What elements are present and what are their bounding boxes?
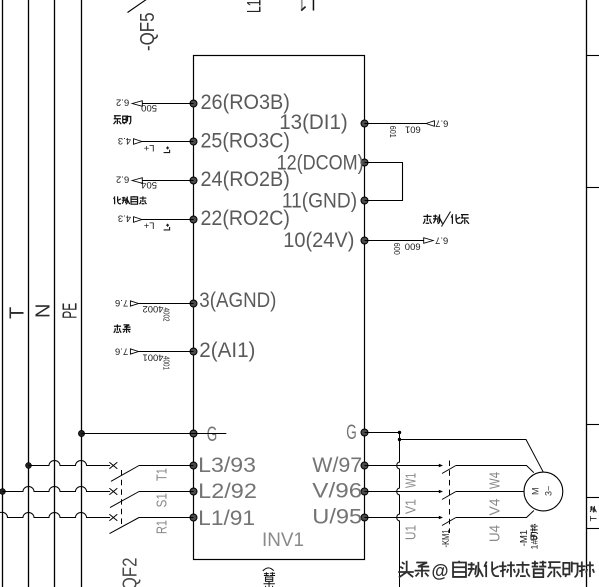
wire ground to motor xyxy=(400,440,544,473)
terminal 12(DCOM) xyxy=(277,151,368,174)
label V4 xyxy=(487,499,504,516)
wire T phase to QF2 xyxy=(29,461,111,466)
breaker QF2 pole 1 contact xyxy=(109,462,193,481)
node T phase junction xyxy=(26,463,32,469)
svg-text:6.7: 6.7 xyxy=(435,117,448,128)
wire number 4002 xyxy=(143,303,171,322)
label T1 xyxy=(154,468,171,481)
border tick 3 xyxy=(587,424,599,426)
svg-text:T1: T1 xyxy=(154,468,171,481)
label V1 xyxy=(403,499,420,514)
svg-text:U4: U4 xyxy=(487,525,504,542)
svg-text:601: 601 xyxy=(405,123,421,134)
border tick 2 xyxy=(587,187,599,189)
ref 6.2 row26 xyxy=(116,96,129,107)
label U1 xyxy=(403,525,420,540)
ref 6.7 row10 xyxy=(435,235,448,246)
contactor KM1 pole V xyxy=(442,492,524,500)
ref 4.3 row22 xyxy=(118,213,131,224)
svg-text:T: T xyxy=(589,516,599,522)
svg-text:L+: L+ xyxy=(143,142,154,153)
svg-text:600: 600 xyxy=(392,243,401,255)
watermark toutiao xyxy=(398,561,594,581)
wire 4001 to 2(AI1) xyxy=(130,349,193,354)
terminal L3/93 xyxy=(190,454,256,477)
terminal U/95 xyxy=(312,505,368,528)
label W4 xyxy=(487,472,504,489)
wire number 601 xyxy=(388,123,421,138)
svg-text:22(RO2C): 22(RO2C) xyxy=(201,207,290,230)
svg-text:25(RO3C): 25(RO3C) xyxy=(201,129,290,152)
node S phase junction xyxy=(0,489,5,495)
svg-text:R1: R1 xyxy=(154,520,171,534)
contactor KM1 pole W xyxy=(442,466,534,474)
svg-text:V4: V4 xyxy=(487,499,504,516)
terminal 13(DI1) xyxy=(279,111,368,134)
border line right xyxy=(586,0,588,587)
ref 6.2 row24 xyxy=(116,174,129,185)
border tick 5 xyxy=(587,528,599,530)
svg-text:3~: 3~ xyxy=(544,486,554,496)
svg-text:4002: 4002 xyxy=(143,303,164,314)
wire S phase to QF2 xyxy=(3,487,111,492)
svg-text:PE: PE xyxy=(60,303,82,319)
wire number 504 xyxy=(141,179,157,190)
wire DCOM-GND link xyxy=(365,163,403,201)
svg-text:L1/91: L1/91 xyxy=(198,507,255,530)
svg-text:10(24V): 10(24V) xyxy=(283,229,354,252)
wire number 500 xyxy=(141,102,157,113)
svg-text:U/95: U/95 xyxy=(312,505,362,528)
terminal 26(RO3B) xyxy=(190,91,290,114)
label N xyxy=(33,304,55,318)
terminal 3(AGND) xyxy=(190,289,276,312)
breaker QF2 linkage xyxy=(121,470,123,528)
terminal 25(RO3C) xyxy=(190,129,290,152)
motor M1 xyxy=(524,472,563,511)
label zone T xyxy=(589,506,599,522)
svg-text:504: 504 xyxy=(141,179,157,190)
svg-text:13(DI1): 13(DI1) xyxy=(279,111,348,134)
wire name L+ row25 xyxy=(143,142,169,153)
terminal G left xyxy=(190,423,217,446)
wire PE to G terminal xyxy=(82,433,227,435)
svg-text:4.3: 4.3 xyxy=(118,213,131,224)
wire L+ to 25(RO3C) xyxy=(134,139,194,145)
label T xyxy=(7,307,29,319)
svg-text:500: 500 xyxy=(141,102,157,113)
svg-text:26(RO3B): 26(RO3B) xyxy=(201,91,290,114)
terminal 2(AI1) xyxy=(190,339,255,362)
inverter U1 box INV1 xyxy=(194,56,365,560)
svg-text:6.2: 6.2 xyxy=(116,96,129,107)
svg-text:600: 600 xyxy=(405,240,421,251)
ref 6.7 row13 xyxy=(435,117,448,128)
svg-text:U1: U1 xyxy=(403,525,420,540)
label R1 xyxy=(154,520,171,534)
svg-text:W1: W1 xyxy=(403,473,420,488)
wire 504 to 24(RO2B) xyxy=(132,178,193,184)
label U4 xyxy=(487,525,504,542)
border tick 1 xyxy=(587,55,599,57)
svg-text:2(AI1): 2(AI1) xyxy=(199,339,255,362)
breaker QF5 blade xyxy=(128,0,148,13)
svg-text:W/97: W/97 xyxy=(312,454,362,477)
cut label fragment xyxy=(301,0,314,11)
wire U/95 to KM1 xyxy=(365,516,444,519)
label start/stop CJK xyxy=(423,212,469,227)
border tick 4 xyxy=(587,497,599,499)
svg-text:6.7: 6.7 xyxy=(435,235,448,246)
wire G right to ground bus xyxy=(365,431,402,434)
breaker QF2 pole 2 contact xyxy=(109,488,193,507)
contactor KM1 pole U xyxy=(442,511,534,526)
svg-text:-KM1: -KM1 xyxy=(440,529,452,547)
wire R phase to QF2 xyxy=(0,512,110,517)
terminal L1/91 xyxy=(190,507,255,530)
svg-text:S1: S1 xyxy=(154,493,171,508)
label L1 wire name xyxy=(245,0,266,13)
ref 4.3 row25 xyxy=(118,135,131,146)
bus line T phase xyxy=(28,0,30,587)
svg-text:L+: L+ xyxy=(143,220,154,231)
wire V/96 to KM1 xyxy=(365,490,444,493)
breaker QF2 pole 3 contact xyxy=(109,514,193,533)
svg-text:3(AGND): 3(AGND) xyxy=(199,289,276,312)
label -KM1 xyxy=(440,529,452,547)
svg-text:G: G xyxy=(346,421,357,444)
wire number 4001 xyxy=(143,351,171,370)
bus line S phase xyxy=(2,0,4,587)
terminal 11(GND) xyxy=(282,190,368,213)
svg-text:6.2: 6.2 xyxy=(116,174,129,185)
svg-text:-QF5: -QF5 xyxy=(137,13,159,52)
terminal W/97 xyxy=(312,454,368,477)
svg-text:7.6: 7.6 xyxy=(115,346,128,357)
wire 500 to 26(RO3B) xyxy=(132,101,193,107)
svg-text:-M1: -M1 xyxy=(519,529,530,546)
svg-text:T: T xyxy=(7,307,29,319)
svg-text:1#: 1# xyxy=(530,539,540,549)
svg-text:@: @ xyxy=(432,561,449,581)
terminal G right xyxy=(346,421,368,444)
wire ground bus vertical xyxy=(397,433,401,587)
wire number 600 xyxy=(392,240,421,255)
label run-signal CJK xyxy=(114,196,147,204)
label -QF5 xyxy=(137,13,159,52)
ref 7.6 row3 xyxy=(115,297,128,308)
label inverter CJK fragment xyxy=(263,568,275,587)
terminal 22(RO2C) xyxy=(190,207,290,230)
label INV1 xyxy=(262,530,304,551)
svg-text:7.6: 7.6 xyxy=(115,297,128,308)
svg-text:L2/92: L2/92 xyxy=(198,480,257,503)
label frequency CJK xyxy=(114,324,131,332)
label -QF2 xyxy=(120,558,142,587)
label S1 xyxy=(154,493,171,508)
svg-text:V/96: V/96 xyxy=(312,479,362,502)
label PE xyxy=(60,303,82,319)
wire 4002 to 3(AGND) xyxy=(130,301,193,306)
svg-text:INV1: INV1 xyxy=(262,530,304,551)
bus line PE xyxy=(81,0,83,587)
contactor KM1 linkage xyxy=(449,461,451,534)
wire name L+ row22 xyxy=(143,220,169,231)
svg-text:4002: 4002 xyxy=(161,308,170,322)
svg-text:W4: W4 xyxy=(487,472,504,489)
svg-text:N: N xyxy=(33,304,55,318)
wire W/97 to KM1 xyxy=(365,464,444,467)
svg-text:G: G xyxy=(207,423,218,446)
svg-text:4.3: 4.3 xyxy=(118,135,131,146)
node PE junction xyxy=(78,430,84,436)
terminal L2/92 xyxy=(190,480,257,503)
wire 601 to 13(DI1) xyxy=(365,121,435,127)
terminal 24(RO2B) xyxy=(190,168,290,191)
svg-text:-QF2: -QF2 xyxy=(120,558,142,587)
svg-text:4001: 4001 xyxy=(143,351,164,362)
wire L+ to 22(RO2C) xyxy=(134,217,194,223)
svg-text:V1: V1 xyxy=(403,499,420,514)
ref 7.6 row2 xyxy=(115,346,128,357)
label W1 xyxy=(403,473,420,488)
label -M1 xyxy=(519,529,530,546)
label fault CJK xyxy=(114,115,131,124)
svg-text:12(DCOM): 12(DCOM) xyxy=(277,151,364,174)
svg-text:11(GND): 11(GND) xyxy=(282,190,357,213)
svg-text:601: 601 xyxy=(388,126,397,138)
wire 600 to 10(24V) xyxy=(365,238,434,244)
svg-text:L1: L1 xyxy=(245,0,266,13)
svg-text:M: M xyxy=(530,488,540,496)
terminal V/96 xyxy=(312,479,368,502)
svg-text:L3/93: L3/93 xyxy=(198,454,256,477)
svg-text:4001: 4001 xyxy=(161,356,170,370)
terminal 10(24V) xyxy=(283,229,368,252)
label 1#motor xyxy=(530,524,540,549)
bus line N xyxy=(54,0,56,587)
